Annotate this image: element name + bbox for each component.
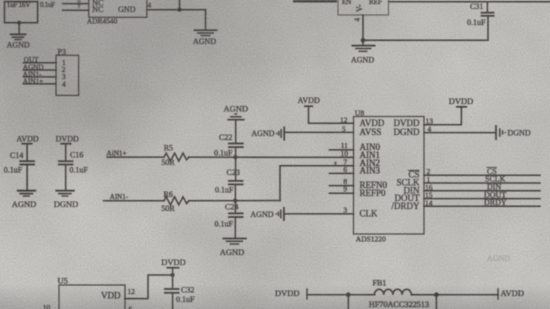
ground DGND (under C16)	[54, 191, 79, 209]
inductor FB1 HF70ACC322513 (ferrite bead)	[369, 278, 429, 309]
resistor R6 50R	[161, 190, 188, 213]
power DVDD (over pin 13)	[449, 96, 474, 107]
node DVDD (port, bottom filter)	[275, 288, 307, 299]
wire (vertical from top edge into GND net)	[179, 0, 181, 10]
junction (V- node)	[361, 38, 366, 43]
junction (GND net)	[178, 8, 182, 12]
ground DGND (sideways, right)	[496, 125, 531, 140]
pin 7 label (AIN2)	[334, 157, 347, 166]
node AIN1+ (filter input top)	[107, 149, 127, 157]
node AIN1- (filter input bottom)	[110, 193, 129, 201]
pin 5 wire (AGND to AVSS)	[284, 124, 353, 133]
wire (R6 to AIN2 riser)	[189, 200, 280, 202]
ground AGND (inverted, above C22)	[224, 103, 249, 119]
capacitor value 0.1uF (top-left second cap)	[40, 1, 55, 9]
op-amp U8 ADS1220 ADC	[354, 108, 425, 243]
node SCLK (net label)	[485, 175, 506, 184]
wire (riser to AIN2 pin 7)	[280, 166, 354, 201]
op-amp U? ADR4540 voltage reference (top, cut off)	[87, 0, 147, 25]
wire (C14 to ground)	[26, 165, 28, 191]
pin 15 wire (DOUT)	[424, 191, 540, 200]
pin 4 wire (regulator V- down)	[354, 15, 364, 40]
pin 1 wire (P3) / node OUT	[23, 56, 66, 67]
ground AGND (under C14)	[12, 191, 37, 209]
wire (C16 to ground)	[65, 165, 67, 191]
wire (GND net down)	[205, 10, 207, 30]
ground AGND (sideways, CLK)	[250, 207, 284, 221]
pin 12 wire (U5 VDD to DVDD)	[125, 275, 173, 299]
ground AGND (under ADR4540)	[193, 30, 218, 46]
pin 3 wire (AGND to CLK)	[284, 205, 354, 214]
power DVDD (over C32)	[161, 257, 186, 289]
pin 10 label (U5 left, cut off)	[43, 303, 51, 309]
wire (top edge net)	[389, 1, 550, 3]
wire (C24 to ground)	[234, 217, 236, 238]
pin 6 label (U5 bottom, cut off)	[129, 305, 133, 309]
pin 16 wire (DIN)	[424, 183, 540, 192]
pin 8 stub (REFN0)	[329, 177, 353, 186]
pin 11 stub (AIN0)	[329, 141, 353, 150]
ground AGND (sideways, AVSS)	[251, 126, 284, 140]
pin 4 wire (U8 DGND to ground)	[424, 124, 496, 133]
resistor R5 50R	[161, 144, 188, 167]
dark photo smear (top edge)	[293, 0, 337, 3]
pin 5 stub (ADR4540 NC)	[63, 0, 89, 5]
ground AGND (under regulator)	[351, 40, 376, 64]
pin 6 stub (AIN3)	[329, 165, 353, 174]
wire (C22 to C23)	[235, 147, 237, 181]
pin 7 stub (ADR4540 NC)	[63, 4, 89, 11]
junction (DVDD node)	[171, 273, 175, 277]
pin 9 stub (REFP0)	[329, 185, 353, 194]
regulator U? (top-right, cut off at top)	[338, 0, 389, 15]
wire (V- node to C31)	[363, 16, 488, 40]
wire (C23 to C24)	[234, 184, 236, 213]
connector P3	[56, 48, 79, 96]
pin 1 wire (SCLK)	[424, 175, 540, 184]
capacitor C24	[215, 203, 244, 229]
node DIN (net label)	[487, 183, 501, 192]
wire (AGND to C22)	[235, 120, 237, 143]
wire (node to ground)	[18, 23, 20, 34]
wire (DVDD to FB1)	[307, 294, 375, 296]
node AVDD (port, bottom filter)	[498, 288, 524, 299]
capacitor C23	[215, 168, 244, 194]
pin 13 wire (U8 to DVDD)	[424, 107, 461, 126]
ground AGND (under C24)	[220, 239, 247, 258]
pin 14 wire (DRDY)	[424, 198, 540, 207]
junction (C23/C24 node on wire2)	[233, 199, 237, 203]
power AVDD (over C14)	[17, 134, 39, 161]
pin 2 wire (P3) / node AGND	[23, 64, 66, 75]
pin 2 wire (CS)	[424, 167, 540, 176]
junction (C22/C23 node on wire1)	[233, 155, 237, 159]
capacitor C16	[58, 151, 88, 175]
pin 4 wire (P3) / node AIN1+	[23, 77, 66, 88]
capacitor C22	[214, 133, 244, 158]
pin 12 wire (AVDD to U8)	[309, 106, 354, 124]
capacitor C31	[467, 2, 495, 27]
wire (AIN1- to R6)	[104, 200, 165, 202]
capacitor C32	[164, 285, 195, 304]
junction (left of FB1, riser down)	[346, 292, 351, 309]
op-amp U5 (bottom-left, cut off)	[58, 275, 126, 309]
capacitor C? 1uF 16V (top-left, cut off at top)	[5, 1, 38, 23]
capacitor C14	[4, 151, 35, 174]
wire (R5 to AIN1 pin 10 of U8)	[189, 156, 354, 158]
faint bleed-through text	[487, 254, 510, 263]
node DOUT (net label)	[484, 190, 506, 199]
power DVDD (over C16)	[56, 134, 79, 161]
junction (right of FB1, riser down)	[434, 292, 439, 309]
wire (AIN1+ to R5)	[107, 156, 164, 158]
pin 10 label (AIN1, on wire1)	[341, 149, 349, 158]
node DRDY (net label)	[484, 198, 507, 207]
wire (C32 down, cut off)	[172, 293, 174, 309]
ground AGND (top-left)	[7, 34, 30, 49]
pin 4 wire (ADR4540 GND to AGND)	[147, 1, 206, 9]
power AVDD (over pin 12)	[298, 96, 320, 106]
wire (FB1 to AVDD)	[411, 294, 498, 296]
junction (top-left ground node)	[17, 21, 21, 25]
node CS (net label)	[487, 167, 497, 176]
pin 3 wire (P3) / node AIN1-	[23, 70, 66, 81]
